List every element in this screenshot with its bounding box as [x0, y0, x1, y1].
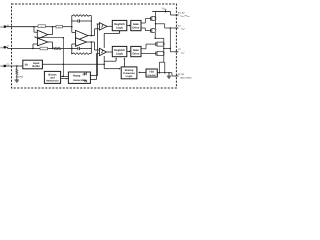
svg-text:Ramp: Ramp	[73, 74, 81, 77]
svg-text:−: −	[76, 40, 77, 42]
svg-text:Logic: Logic	[116, 52, 124, 55]
svg-text:Startup: Startup	[125, 69, 134, 72]
svg-text:Logic: Logic	[126, 75, 133, 78]
svg-text:−: −	[76, 33, 77, 35]
svg-text:and: and	[50, 76, 55, 79]
svg-text:A3, B3: A3, B3	[178, 73, 185, 76]
svg-text:+: +	[38, 44, 39, 46]
svg-text:Deglitch: Deglitch	[114, 49, 125, 52]
svg-text:SD: SD	[25, 64, 29, 67]
svg-text:Logic: Logic	[116, 26, 124, 29]
svg-text:Deglitch: Deglitch	[114, 23, 125, 26]
svg-text:−: −	[38, 33, 39, 35]
svg-text:300 kΩ: 300 kΩ	[16, 76, 24, 79]
svg-text:Control: Control	[148, 74, 157, 77]
svg-text:Drive: Drive	[133, 26, 140, 29]
svg-text:TSD: TSD	[149, 71, 154, 74]
svg-text:IN-: IN-	[0, 26, 4, 29]
svg-text:Generator: Generator	[73, 79, 85, 82]
svg-text:References: References	[46, 80, 59, 83]
svg-text:−: −	[38, 40, 39, 42]
svg-text:VDD: VDD	[162, 7, 167, 11]
svg-text:B1, B2: B1, B2	[178, 11, 185, 14]
svg-text:Drive: Drive	[133, 52, 140, 55]
svg-text:+: +	[76, 44, 77, 46]
svg-text:VO+: VO+	[181, 28, 186, 31]
svg-text:SD: SD	[0, 65, 4, 68]
svg-text:GND, PGND: GND, PGND	[180, 77, 192, 80]
svg-text:Gate: Gate	[133, 23, 139, 26]
svg-text:Gate: Gate	[133, 49, 139, 52]
svg-text:Buffer: Buffer	[32, 65, 40, 68]
